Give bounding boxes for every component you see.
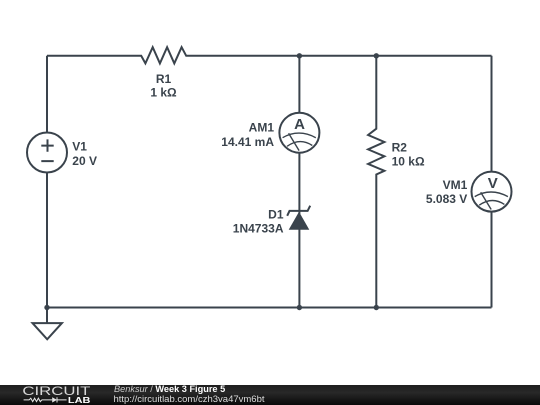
svg-text:14.41 mA: 14.41 mA: [221, 135, 274, 149]
svg-text:R1: R1: [156, 72, 172, 86]
svg-text:V1: V1: [72, 140, 87, 154]
svg-text:R2: R2: [392, 141, 408, 155]
svg-text:5.083 V: 5.083 V: [426, 192, 467, 206]
svg-text:D1: D1: [268, 207, 284, 221]
svg-text:1 kΩ: 1 kΩ: [150, 85, 177, 99]
svg-text:LAB: LAB: [68, 396, 91, 405]
svg-text:VM1: VM1: [443, 178, 468, 192]
svg-text:http://circuitlab.com/czh3va47: http://circuitlab.com/czh3va47vm6bt: [114, 394, 265, 405]
svg-text:A: A: [294, 116, 305, 133]
svg-text:1N4733A: 1N4733A: [233, 222, 284, 236]
svg-text:10 kΩ: 10 kΩ: [392, 155, 425, 169]
svg-text:AM1: AM1: [249, 120, 275, 134]
svg-text:Benksur / Week 3 Figure 5: Benksur / Week 3 Figure 5: [114, 384, 225, 394]
svg-text:20 V: 20 V: [72, 154, 97, 168]
svg-text:V: V: [488, 175, 498, 192]
